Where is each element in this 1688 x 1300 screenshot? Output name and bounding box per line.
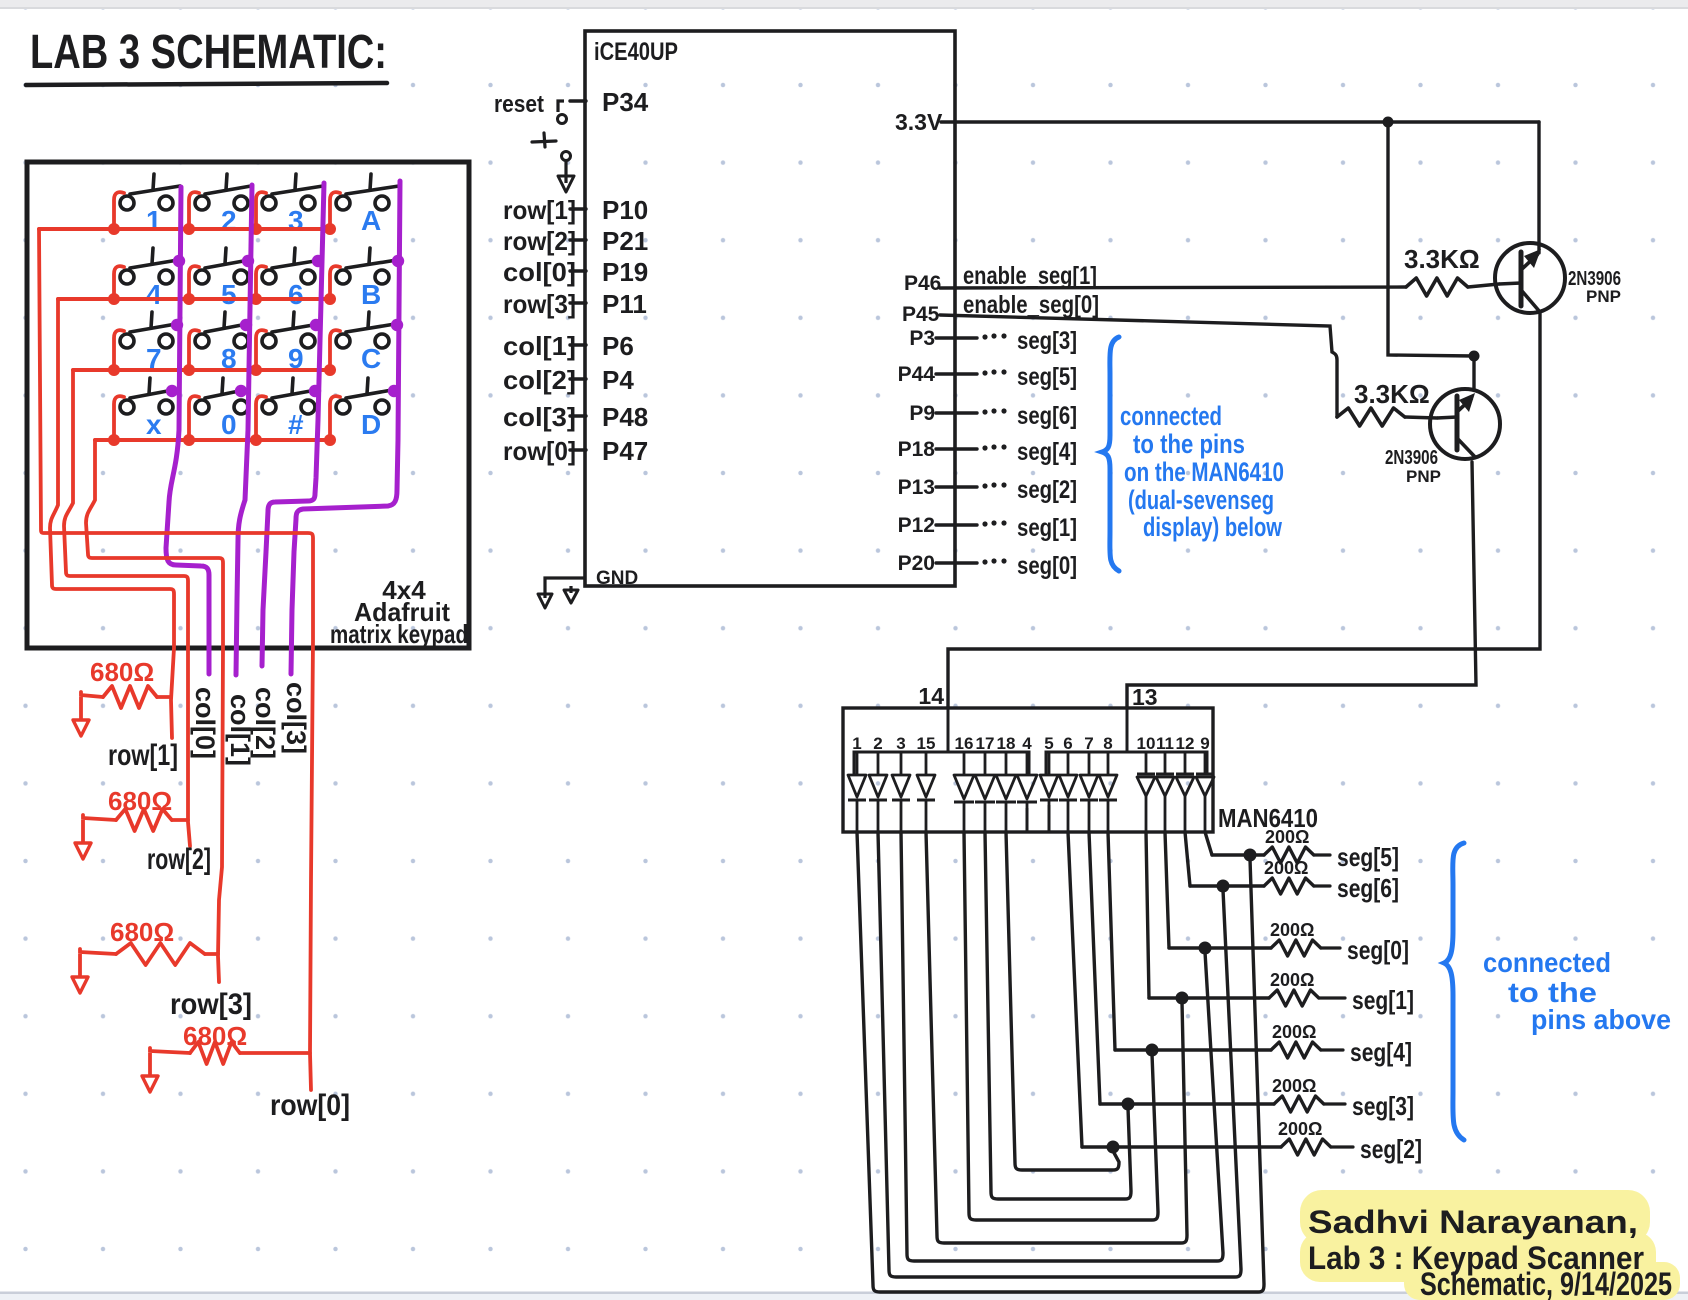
wire row bus2 to row[1] resistor — [50, 299, 174, 738]
display pin numbers — [852, 734, 1209, 753]
svg-text:3.3V: 3.3V — [895, 109, 943, 135]
ground symbol for row[0] — [142, 1053, 158, 1092]
wire red hook SWC to row bus — [330, 330, 340, 368]
wire 3.3V to Q2 emitter — [1388, 122, 1474, 356]
switch SW9 key "9" — [262, 312, 319, 374]
svg-text:13: 13 — [1132, 684, 1158, 710]
wire row bus3 to row[2] resistor — [64, 370, 190, 846]
svg-text:seg[1]: seg[1] — [1017, 514, 1077, 542]
switch SWD key "D" — [336, 378, 392, 440]
svg-text:col[0]: col[0] — [503, 257, 576, 287]
LED diode at display pin 3 — [892, 752, 910, 832]
resistor R2 680ohm (row[2] pulldown) — [83, 786, 188, 831]
wire display pin 1 loop to seg[5] row — [857, 832, 1264, 1292]
LED diode at display pin 11 — [1156, 752, 1174, 832]
svg-text:0: 0 — [221, 409, 237, 440]
svg-text:5: 5 — [221, 279, 237, 310]
svg-text:6: 6 — [1063, 734, 1072, 753]
switch SWhash key "#" — [262, 378, 316, 440]
LED diode at display pin 12 — [1176, 752, 1194, 832]
pin P11 (row[3]) left side — [570, 301, 586, 304]
svg-text:9: 9 — [1200, 734, 1209, 753]
resistor R4 680ohm (row[0] pulldown) — [150, 1021, 310, 1064]
svg-text:PNP: PNP — [1406, 467, 1441, 486]
svg-text:row[3]: row[3] — [503, 289, 576, 319]
switch SW1 key "1" — [120, 174, 180, 236]
wire red hook SW2 to row bus — [189, 192, 199, 227]
resistor R3 680ohm (row[3] pulldown) — [80, 917, 218, 965]
wire display anode bus B (pin13 side) — [1046, 752, 1207, 775]
switch SW2 key "2" — [195, 174, 251, 236]
wire enable_seg[0] — [940, 315, 1337, 417]
wire display pin 18 loop to seg[2] row — [1006, 832, 1119, 1170]
svg-text:4: 4 — [1022, 734, 1032, 753]
svg-text:to the pins: to the pins — [1133, 429, 1245, 459]
svg-text:16: 16 — [955, 734, 974, 753]
svg-text:iCE40UP: iCE40UP — [594, 38, 678, 66]
wire display pin 10 down to seg[1] row — [1146, 832, 1149, 998]
node junction dot seg[3] — [1122, 1098, 1135, 1111]
wire red hook SW0 to row bus — [189, 396, 199, 438]
svg-text:P47: P47 — [602, 436, 648, 466]
wire red hook SW4 to row bus — [114, 266, 124, 297]
svg-text:18: 18 — [997, 734, 1016, 753]
wire red row bus 2 — [58, 297, 330, 301]
svg-text:Sadhvi Narayanan,: Sadhvi Narayanan, — [1308, 1204, 1638, 1240]
ground symbols at FPGA GND — [538, 578, 585, 608]
wire row bus4 to row[3] resistor — [86, 440, 223, 982]
pin P6 (col[1]) left side — [570, 343, 586, 346]
svg-text:row[0]: row[0] — [270, 1089, 350, 1122]
pin P4 (col[2]) left side — [570, 377, 586, 380]
LED diode at display pin 16 — [954, 752, 974, 832]
node junction dots row bus 4 — [108, 434, 336, 446]
svg-text:680Ω: 680Ω — [110, 917, 174, 947]
svg-text:P13: P13 — [898, 476, 935, 499]
svg-text:2N3906: 2N3906 — [1385, 447, 1438, 469]
svg-text:200Ω: 200Ω — [1270, 970, 1314, 990]
svg-text:row[1]: row[1] — [503, 195, 576, 225]
transistor Q2 2N3906 PNP — [1430, 389, 1500, 459]
blue brace (seg ladder) — [1444, 843, 1464, 1140]
wire enable_seg[1] — [940, 287, 1406, 288]
svg-text:row[0]: row[0] — [503, 436, 576, 466]
LED diode at display pin 4 — [1017, 752, 1037, 832]
svg-text:P10: P10 — [602, 195, 648, 225]
svg-text:seg[0]: seg[0] — [1017, 552, 1077, 580]
wire purple col[0] vertical — [166, 187, 209, 674]
svg-text:200Ω: 200Ω — [1278, 1119, 1322, 1139]
svg-text:seg[3]: seg[3] — [1352, 1091, 1414, 1121]
svg-text:row[3]: row[3] — [170, 988, 252, 1021]
wire display anode bus A (pin14 side) — [854, 752, 1029, 775]
LED diode at display pin 15 — [917, 752, 935, 832]
ground symbol for row[2] — [75, 820, 91, 859]
svg-text:3: 3 — [896, 734, 905, 753]
switch SW0 key "0" — [195, 378, 248, 440]
pin P21 (row[2]) left side — [570, 238, 586, 241]
svg-text:row[2]: row[2] — [147, 843, 211, 876]
switch SW7 key "7" — [120, 312, 176, 374]
svg-text:connected: connected — [1483, 947, 1611, 978]
LED diode at display pin 7 — [1080, 752, 1098, 832]
svg-text:row[2]: row[2] — [503, 226, 576, 256]
svg-text:#: # — [288, 409, 304, 440]
wire purple col[3] vertical — [291, 181, 400, 674]
wire red hook SW7 to row bus — [114, 330, 124, 368]
svg-text:seg[5]: seg[5] — [1337, 842, 1399, 872]
wire purple col[2] vertical — [262, 183, 324, 666]
svg-text:P20: P20 — [898, 552, 935, 575]
reset ground arrow — [558, 161, 574, 192]
svg-text:P44: P44 — [898, 363, 936, 386]
ground symbol for row[1] — [73, 697, 89, 736]
svg-text:2: 2 — [873, 734, 882, 753]
LED diode at display pin 18 — [996, 752, 1016, 832]
LED diode at display pin 2 — [869, 752, 887, 832]
svg-text:P11: P11 — [602, 289, 647, 319]
svg-text:C: C — [361, 343, 381, 374]
svg-text:reset: reset — [494, 91, 544, 118]
svg-text:GND: GND — [596, 568, 638, 589]
pin P48 (col[3]) left side — [570, 414, 586, 417]
svg-text:11: 11 — [1156, 734, 1174, 753]
svg-text:enable_seg[0]: enable_seg[0] — [963, 291, 1099, 319]
wire red row bus 4 — [95, 438, 330, 442]
wire red hook SWB to row bus — [330, 266, 340, 297]
node junction dots row bus 3 — [108, 364, 336, 376]
wire Q1 emitter to 3.3V — [1537, 122, 1540, 253]
wire red hook SWD to row bus — [330, 396, 340, 438]
keypad module box (4x4 Adafruit matrix keypad) — [27, 162, 469, 648]
LED diode at display pin 9 — [1196, 752, 1214, 832]
svg-text:200Ω: 200Ω — [1272, 1022, 1316, 1042]
svg-text:200Ω: 200Ω — [1265, 827, 1309, 847]
node junction dots row bus 1 — [108, 223, 336, 235]
node junction dot Q2 emitter — [1469, 351, 1480, 362]
LED diode at display pin 5 — [1040, 752, 1058, 832]
wire 3.3V rail — [941, 120, 1539, 123]
svg-text:680Ω: 680Ω — [90, 657, 154, 687]
reset push-button switch — [532, 101, 571, 161]
svg-text:col[3]: col[3] — [281, 682, 311, 754]
resistor R1 680ohm (row[1] pulldown) — [81, 657, 171, 708]
LED diode at display pin 10 — [1137, 752, 1155, 832]
node junction dot seg[6] — [1217, 880, 1230, 893]
blue brace (seg pins) — [1102, 337, 1119, 571]
wire red row bus 3 — [73, 368, 330, 372]
svg-text:15: 15 — [917, 734, 936, 753]
node junction dot seg[0] — [1199, 942, 1212, 955]
node purple junction dots — [166, 255, 404, 397]
svg-text:seg[4]: seg[4] — [1350, 1037, 1412, 1067]
svg-text:seg[2]: seg[2] — [1360, 1134, 1422, 1164]
wire red hook SW9 to row bus — [256, 330, 266, 368]
wire seg[3] row horizontal — [1100, 1102, 1274, 1105]
svg-text:14: 14 — [918, 683, 944, 709]
svg-text:P9: P9 — [909, 402, 935, 425]
switch SWA key "A" — [336, 174, 399, 236]
node junction dots row bus 2 — [108, 293, 336, 305]
pin P10 (row[1]) left side — [570, 207, 586, 210]
svg-text:display) below: display) below — [1143, 512, 1283, 542]
svg-text:P46: P46 — [904, 272, 941, 295]
svg-text:200Ω: 200Ω — [1264, 858, 1308, 878]
svg-text:seg[5]: seg[5] — [1017, 363, 1077, 391]
svg-text:seg[6]: seg[6] — [1017, 402, 1077, 430]
svg-text:connected: connected — [1120, 401, 1222, 431]
svg-text:seg[4]: seg[4] — [1017, 438, 1077, 466]
LED diode at display pin 17 — [975, 752, 995, 832]
svg-text:3: 3 — [288, 205, 304, 236]
svg-text:col[2]: col[2] — [503, 365, 576, 395]
switch SWC key "C" — [336, 312, 395, 374]
wire red hook SW6 to row bus — [256, 266, 266, 297]
svg-text:seg[3]: seg[3] — [1017, 327, 1077, 355]
svg-text:8: 8 — [1103, 734, 1112, 753]
svg-text:col[2]: col[2] — [250, 687, 280, 759]
signature highlight — [1300, 1190, 1680, 1300]
svg-text:on the MAN6410: on the MAN6410 — [1124, 457, 1284, 487]
node junction dot on 3.3V rail — [1383, 117, 1394, 128]
svg-text:P19: P19 — [602, 257, 648, 287]
svg-text:17: 17 — [976, 734, 995, 753]
svg-text:x: x — [146, 409, 162, 440]
svg-text:A: A — [361, 205, 381, 236]
svg-text:enable_seg[1]: enable_seg[1] — [963, 262, 1097, 290]
wire display pin 15 loop to seg[1] row — [926, 832, 1187, 1243]
display U2 MAN6410 box — [843, 708, 1213, 832]
pin P47 (row[0]) left side — [570, 448, 586, 451]
svg-text:col[0]: col[0] — [190, 687, 220, 759]
pin P19 (col[0]) left side — [570, 269, 586, 272]
wire display pin 7 down to seg[3] row — [1089, 832, 1100, 1104]
svg-text:4: 4 — [146, 279, 162, 310]
svg-text:200Ω: 200Ω — [1270, 920, 1314, 940]
switch SWx key "x" — [120, 378, 173, 440]
svg-text:col[1]: col[1] — [503, 331, 576, 361]
wire Q1 collector to display pin 14 — [948, 312, 1540, 708]
svg-text:P4: P4 — [602, 365, 634, 395]
svg-text:seg[1]: seg[1] — [1352, 985, 1414, 1015]
svg-text:P48: P48 — [602, 402, 648, 432]
node junction dot seg[1] — [1176, 992, 1189, 1005]
switch SWB key "B" — [336, 248, 397, 310]
svg-text:col[3]: col[3] — [503, 402, 576, 432]
wire red hook SW5 to row bus — [189, 266, 199, 297]
LED diode at display pin 8 — [1099, 752, 1117, 832]
wire display pin 9 down to seg[5] row — [1205, 832, 1212, 855]
svg-text:pins above: pins above — [1531, 1004, 1671, 1035]
wire display pin 3 loop to seg[0] row — [901, 832, 1223, 1261]
blue annotation text 2 — [1483, 947, 1671, 1035]
wire red row bus 1 — [39, 227, 330, 231]
wire seg[2] row horizontal — [1082, 1145, 1281, 1148]
svg-text:5: 5 — [1044, 734, 1053, 753]
transistor Q1 2N3906 PNP — [1495, 243, 1565, 313]
switch SW6 key "6" — [262, 248, 321, 310]
svg-text:Schematic, 9/14/2025: Schematic, 9/14/2025 — [1420, 1266, 1672, 1300]
wire row bus1 to row[0] resistor (long) — [39, 229, 313, 1090]
wire red hook SWx to row bus — [114, 396, 124, 438]
svg-text:PNP: PNP — [1586, 287, 1621, 306]
svg-text:7: 7 — [1084, 734, 1093, 753]
switch SW4 key "4" — [120, 248, 178, 310]
svg-text:P18: P18 — [898, 438, 936, 461]
wire red hook SW1 to row bus — [114, 192, 124, 227]
wire seg[0] row horizontal — [1169, 946, 1271, 949]
svg-text:1: 1 — [146, 205, 162, 236]
svg-text:12: 12 — [1176, 734, 1195, 753]
node junction dot seg[2] — [1107, 1141, 1120, 1154]
svg-text:seg[2]: seg[2] — [1017, 476, 1077, 504]
svg-text:6: 6 — [288, 279, 304, 310]
svg-text:P12: P12 — [898, 514, 935, 537]
svg-text:B: B — [361, 279, 381, 310]
wire display pin 11 down to seg[0] row — [1165, 832, 1169, 948]
svg-text:200Ω: 200Ω — [1272, 1076, 1316, 1096]
switch SW5 key "5" — [195, 248, 249, 310]
svg-text:P21: P21 — [602, 226, 648, 256]
wire red hook SWhash to row bus — [256, 396, 266, 438]
svg-text:2: 2 — [221, 205, 237, 236]
ground symbol for row[3] — [72, 954, 88, 993]
svg-text:10: 10 — [1137, 734, 1156, 753]
svg-text:LAB 3 SCHEMATIC:: LAB 3 SCHEMATIC: — [30, 26, 387, 79]
wire Q2 collector to display pin 13 — [1127, 462, 1476, 708]
wire purple col[1] vertical — [236, 185, 252, 675]
blue annotation text — [1120, 401, 1284, 542]
switch SW8 key "8" — [195, 312, 248, 374]
wire red hook SWA to row bus — [330, 192, 340, 227]
svg-text:seg[6]: seg[6] — [1337, 873, 1399, 903]
pin P34 (reset) left side — [570, 99, 586, 102]
svg-text:3.3KΩ: 3.3KΩ — [1354, 379, 1430, 409]
LED diode at display pin 1 — [848, 752, 866, 832]
svg-text:row[1]: row[1] — [108, 739, 178, 772]
svg-text:D: D — [361, 409, 381, 440]
wire stub display pin 5 — [1048, 805, 1051, 832]
LED diode at display pin 6 — [1059, 752, 1077, 832]
svg-text:P3: P3 — [909, 327, 935, 350]
FPGA U1 iCE40UP box — [585, 31, 955, 586]
wire seg[6] row horizontal — [1190, 884, 1264, 887]
wire red hook SW8 to row bus — [189, 330, 199, 368]
wire display pin 8 down to seg[4] row — [1108, 832, 1115, 1050]
svg-text:P45: P45 — [902, 303, 940, 326]
wire seg[1] row horizontal — [1149, 996, 1269, 999]
wire Q2 emitter vertical — [1472, 356, 1475, 390]
wire display pin 16 loop to seg[4] row — [964, 832, 1158, 1220]
wire display pin 12 down to seg[6] row — [1185, 832, 1190, 886]
wire red hook SW3 to row bus — [256, 192, 266, 227]
wire display pin 2 loop to seg[6] row — [878, 832, 1241, 1277]
wire display pin 6 down to seg[2] row — [1068, 832, 1082, 1147]
wire stub display pin 4 — [1026, 808, 1029, 832]
node junction dot seg[4] — [1146, 1044, 1159, 1057]
svg-text:matrix keypad: matrix keypad — [330, 619, 468, 649]
wire seg[4] row horizontal — [1115, 1048, 1271, 1051]
wire seg[5] row horizontal — [1212, 853, 1264, 856]
svg-text:(dual-sevenseg: (dual-sevenseg — [1128, 485, 1274, 515]
switch SW3 key "3" — [262, 174, 323, 236]
svg-text:P34: P34 — [602, 87, 649, 117]
signature text — [1308, 1204, 1672, 1300]
node junction dot seg[5] — [1244, 849, 1257, 862]
wire display pin 17 loop to seg[3] row — [985, 832, 1131, 1199]
svg-text:seg[0]: seg[0] — [1347, 935, 1409, 965]
svg-text:P6: P6 — [602, 331, 634, 361]
svg-text:1: 1 — [852, 734, 861, 753]
svg-text:3.3KΩ: 3.3KΩ — [1404, 244, 1480, 274]
